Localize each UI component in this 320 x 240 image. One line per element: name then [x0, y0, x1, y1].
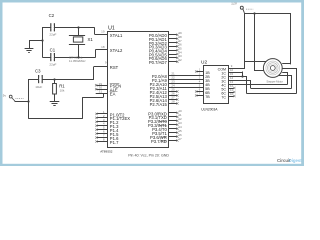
- svg-text:P0.7/AD7: P0.7/AD7: [149, 60, 168, 65]
- svg-text:11.0592MHz: 11.0592MHz: [69, 59, 86, 63]
- svg-text:7B: 7B: [205, 95, 210, 99]
- svg-text:32: 32: [178, 58, 182, 62]
- watermark CircuitDigest: [277, 158, 302, 163]
- svg-text:ULN2003A: ULN2003A: [201, 108, 218, 112]
- svg-text:10: 10: [230, 92, 234, 96]
- wire 3C inner wrap to motor lower-right: [234, 75, 292, 88]
- page border frame: [0, 0, 304, 3]
- ground (R1): [50, 102, 60, 106]
- wire left vertical (caps common): [42, 27, 44, 58]
- 12v net label (dotted): [246, 8, 253, 10]
- svg-text:X1: X1: [88, 37, 94, 42]
- svg-text:U2: U2: [201, 60, 207, 66]
- capacitor C1: [50, 53, 55, 61]
- U1 port P3 pin name labels: [148, 111, 168, 144]
- wire ground tap: [29, 40, 43, 42]
- svg-text:28: 28: [171, 100, 175, 104]
- wire switch to junction: [15, 101, 29, 103]
- U1 port P2 pin stubs (21-28): [169, 72, 179, 105]
- svg-text:10uF: 10uF: [35, 85, 42, 89]
- U1 pins PSEN(29)/ALE(30)/EA(31) stubs: [95, 82, 108, 94]
- svg-text:P2.7/A15: P2.7/A15: [150, 102, 168, 107]
- wire junction up to C3 rail: [28, 79, 30, 102]
- wire RST rail: [29, 67, 94, 80]
- IC U1 AT89S52 microcontroller body: [108, 32, 169, 148]
- svg-text:Digest: Digest: [289, 158, 303, 163]
- svg-text:17: 17: [178, 137, 182, 141]
- node R1 top junction: [53, 78, 55, 80]
- U1 port P0 pin name labels: [149, 33, 168, 65]
- resistor R1: [53, 79, 57, 102]
- U1 port P3 pin stubs (10-17): [169, 109, 183, 141]
- crystal X1: [69, 27, 85, 58]
- U1 left pin name labels: [110, 33, 123, 97]
- svg-text:Stepper Motor: Stepper Motor: [266, 80, 283, 84]
- svg-text:P1.7: P1.7: [110, 140, 119, 145]
- wire 1C toward motor: [234, 72, 242, 74]
- svg-text:EA: EA: [110, 91, 116, 96]
- U2 output pins COM,1C-7C: [218, 64, 236, 99]
- wire junction down-right to EA: [29, 93, 104, 119]
- wire XTAL1 top rail: [43, 28, 95, 35]
- svg-text:XTAL2: XTAL2: [110, 48, 123, 53]
- power terminal 12v: [240, 6, 244, 13]
- wire 4C under motor to motor right-bottom: [234, 72, 288, 85]
- U1 port P0 pin stubs (39-32): [169, 31, 183, 63]
- node switch junction: [27, 100, 29, 102]
- wire tap to motor left-top: [244, 61, 266, 63]
- node crystal-bottom junction: [77, 56, 79, 58]
- U2 input pins 1B-7B: [195, 68, 210, 99]
- svg-text:P3.7/RD: P3.7/RD: [151, 139, 167, 144]
- wires P2.0-P2.3 to ULN2003 inputs: [177, 76, 197, 88]
- node 1C-2C tap: [241, 72, 243, 78]
- power terminal 5v: [9, 95, 15, 101]
- node caps-ground junction: [41, 39, 43, 41]
- capacitor C2: [50, 23, 55, 31]
- node 12v rail junction: [253, 12, 255, 14]
- svg-text:10k: 10k: [60, 88, 65, 92]
- wire rail right side to motor right-top: [282, 13, 291, 64]
- 5v net label (dotted): [16, 98, 24, 100]
- svg-text:AT89S52: AT89S52: [100, 150, 113, 154]
- U1 port P1 pin name labels: [110, 112, 130, 145]
- svg-text:U1: U1: [108, 26, 115, 32]
- wire XTAL2 bottom rail: [43, 50, 96, 58]
- svg-text:19: 19: [101, 29, 105, 33]
- svg-text:RST: RST: [110, 65, 119, 70]
- svg-text:7C: 7C: [221, 95, 226, 99]
- motor M1 (stepper motor): [263, 59, 282, 78]
- svg-text:18: 18: [101, 45, 105, 49]
- U1 port P1 pin stubs (1-8): [95, 110, 107, 143]
- capacitor C3: [38, 75, 43, 83]
- IC U2 ULN2003A driver body: [204, 66, 229, 104]
- node crystal-top junction: [77, 26, 79, 28]
- wire 12v down to COM: [234, 13, 245, 69]
- svg-text:22pF: 22pF: [49, 33, 56, 37]
- svg-text:C1: C1: [50, 48, 56, 53]
- svg-text:31: 31: [99, 90, 103, 94]
- wire 12v down to motor left-bottom: [255, 13, 265, 71]
- svg-text:XTAL1: XTAL1: [110, 33, 123, 38]
- svg-text:C2: C2: [49, 13, 55, 18]
- ground (crystal caps): [25, 41, 34, 53]
- U1 port P2 pin name labels: [150, 74, 168, 107]
- svg-text:5v: 5v: [3, 93, 7, 97]
- svg-text:22pF: 22pF: [49, 62, 56, 66]
- svg-text:Pin 40: Vcc, Pin 20: GND: Pin 40: Vcc, Pin 20: GND: [128, 154, 169, 158]
- svg-text:C3: C3: [35, 68, 41, 73]
- wire 2C outer wrap to motor right-mid: [234, 68, 297, 94]
- U1 pins XTAL1(19)/XTAL2(18) stubs: [95, 29, 108, 49]
- X1 value label CRYSTAL 11.0592MHz: [69, 56, 86, 63]
- wire 12v top rail: [244, 13, 290, 15]
- U1 pin RST(9) stub: [94, 60, 108, 66]
